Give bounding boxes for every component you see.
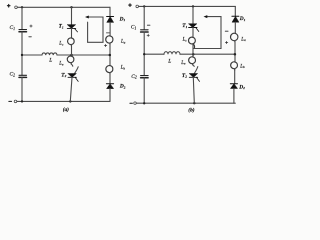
svg-text:(a): (a) — [63, 106, 69, 113]
svg-text:D1: D1 — [239, 16, 246, 22]
current loop annotation arrow (a) — [85, 16, 103, 43]
node junction center-right (b) — [234, 53, 237, 56]
wire left rail middle (a) — [21, 32, 23, 75]
plus sign of C1 (a) — [30, 25, 32, 27]
svg-text:Le: Le — [180, 61, 186, 66]
node junction center-middle (a) — [70, 54, 73, 57]
node junction bottom-left (a) — [21, 100, 23, 102]
node junction top-middle (b) — [192, 5, 194, 7]
wire bottom rail (a) — [17, 100, 110, 102]
svg-text:D1: D1 — [119, 16, 126, 22]
svg-text:La: La — [120, 40, 126, 45]
input terminal circle top-left (a) — [15, 6, 18, 9]
svg-text:C1: C1 — [10, 25, 16, 31]
wire right rail bottom (a) — [109, 89, 111, 102]
wire middle branch between loops (a) — [71, 45, 73, 57]
svg-text:D2: D2 — [238, 84, 245, 90]
wire left rail middle (b) — [143, 32, 145, 76]
capacitor C2 (b) — [141, 76, 149, 78]
node junction center-middle (b) — [192, 53, 195, 56]
inductor L coil (b) — [164, 52, 180, 55]
wire left rail upper (a) — [21, 7, 23, 29]
wire left rail upper (b) — [143, 6, 145, 29]
plus sign of C1 (b) — [147, 34, 149, 36]
commutation path annotation arrow (b) — [194, 15, 221, 48]
svg-text:Le: Le — [58, 62, 64, 67]
svg-text:T1: T1 — [59, 24, 64, 30]
svg-text:C2: C2 — [10, 72, 16, 78]
wire left rail lower (b) — [143, 78, 145, 104]
svg-text:T1: T1 — [182, 23, 187, 29]
node junction center-left (b) — [143, 53, 145, 55]
svg-text:C1: C1 — [131, 25, 137, 31]
stray inductance loop Le middle lower (a) — [67, 56, 74, 64]
wire middle branch below T1 (b) — [192, 28, 194, 38]
svg-text:L: L — [48, 58, 52, 64]
thyristor T1 (b) — [189, 24, 199, 32]
node junction center-left (a) — [21, 54, 23, 56]
thyristor T2 (a) — [68, 74, 78, 82]
svg-text:La: La — [240, 37, 246, 42]
stray inductance loop Le middle lower (b) — [189, 57, 196, 65]
capacitor C2 (a) — [19, 75, 27, 77]
diode D2 (b) — [230, 84, 237, 89]
capacitor C1 (a) — [19, 30, 27, 32]
input terminal circle top-left (b) — [136, 5, 139, 8]
wire center link left segment (a) — [22, 54, 42, 56]
minus sign above loop La (a) — [106, 32, 109, 34]
diode D2 (a) — [106, 84, 113, 89]
wire right rail above D2 (a) — [109, 73, 111, 84]
wire center link right segment (a) — [57, 54, 110, 56]
svg-text:Lc: Lc — [58, 42, 64, 47]
stray inductance loop Lc middle upper (b) — [189, 37, 196, 48]
wire left rail lower (a) — [21, 77, 23, 101]
diode D1 (b) — [232, 16, 239, 22]
input terminal circle bottom-left (a) — [14, 100, 17, 103]
wire right rail top corner (b) — [234, 6, 236, 16]
svg-text:T2: T2 — [182, 73, 187, 79]
plus sign below loop La (a) — [104, 44, 106, 46]
thyristor T1 (a) — [67, 25, 77, 32]
diode D1 (a) — [107, 17, 114, 23]
wire bottom rail (b) — [136, 102, 235, 104]
stray inductance loop La right upper (a) — [106, 36, 113, 45]
svg-text:Lc: Lc — [182, 38, 188, 43]
node junction center-right (a) — [109, 54, 112, 57]
wire middle branch anode of T1 (a) — [71, 7, 73, 24]
minus sign above loop La (b) — [225, 30, 228, 32]
wire center link right segment (b) — [180, 53, 235, 55]
wire right rail above D2 (b) — [234, 69, 236, 84]
svg-text:D2: D2 — [119, 84, 126, 90]
node junction bottom-middle (b) — [193, 102, 195, 104]
wire right rail top corner (a) — [109, 7, 111, 16]
node junction top-middle (a) — [70, 6, 72, 8]
stray inductance loop Lb right lower (a) — [106, 66, 113, 74]
svg-text:T2: T2 — [61, 72, 66, 78]
wire right rail to center junction (b) — [234, 41, 236, 62]
node junction top-left (b) — [143, 5, 145, 7]
inductor L coil (a) — [42, 53, 57, 55]
minus terminal mark bottom-left (a) — [9, 100, 12, 102]
wire middle branch cathode of T2 (a) — [70, 77, 72, 101]
wire middle branch anode of T1 (b) — [192, 6, 194, 23]
capacitor C1 (b) — [141, 30, 149, 32]
wire middle branch cathode of T2 (b) — [193, 77, 194, 103]
plus sign below loop La (b) — [225, 41, 227, 43]
wire top rail (a) — [17, 6, 110, 8]
wire right rail to center junction (a) — [109, 43, 111, 66]
wire top rail (b) — [139, 5, 236, 7]
wire middle branch anode of T2 (b) — [193, 65, 198, 74]
wire center link left segment (b) — [144, 53, 164, 55]
wire right rail bottom (b) — [233, 89, 235, 104]
input terminal circle bottom-left (b) — [134, 102, 137, 105]
svg-text:Lb: Lb — [120, 66, 126, 71]
wire middle branch between loops (b) — [192, 45, 194, 57]
wire middle branch anode of T2 (a) — [71, 64, 78, 73]
node junction bottom-left (b) — [143, 102, 145, 104]
stray inductance loop La right upper (b) — [231, 33, 238, 42]
minus sign of C1 (a) — [29, 36, 32, 38]
stray inductance loop Lb right lower (b) — [231, 62, 238, 70]
thyristor T2 (b) — [189, 74, 199, 82]
svg-text:C2: C2 — [131, 74, 137, 80]
minus sign of C1 (b) — [147, 24, 150, 26]
plus terminal mark top-left (a) — [7, 4, 10, 7]
svg-text:(b): (b) — [188, 106, 194, 113]
svg-text:Lb: Lb — [239, 64, 245, 69]
node junction bottom-middle (a) — [69, 100, 71, 102]
plus terminal mark top-left (b) — [129, 4, 132, 7]
stray inductance loop Lc middle upper (a) — [68, 38, 75, 46]
wire right rail below D1 (b) — [234, 22, 236, 33]
node junction top-left (a) — [21, 6, 23, 8]
wire middle branch below T1 (a) — [71, 28, 73, 38]
minus terminal mark bottom-left (b) — [130, 102, 133, 104]
svg-text:L: L — [167, 58, 171, 64]
wire right rail below D1 (a) — [109, 22, 111, 36]
